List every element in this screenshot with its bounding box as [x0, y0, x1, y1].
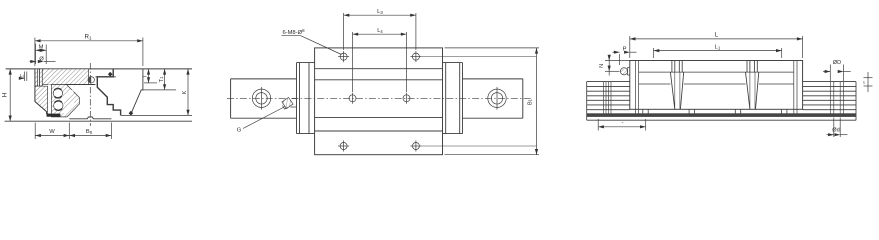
- svg-text:L1: L1: [715, 44, 721, 50]
- svg-text:R1: R1: [84, 34, 91, 41]
- svg-text:L1: L1: [20, 73, 25, 79]
- svg-text:T: T: [143, 74, 149, 78]
- flange strip hatched bars with bolt hole gap: [35, 69, 38, 86]
- ball 1: [53, 88, 64, 99]
- rail bottom band full width: [587, 113, 856, 117]
- svg-text:B1: B1: [528, 98, 534, 105]
- grease nipple side: [620, 68, 629, 75]
- top surface line: [6, 68, 192, 70]
- left end cap: [297, 63, 315, 134]
- svg-text:t: t: [863, 80, 865, 85]
- dimension M: [36, 44, 47, 65]
- rail stripes left segment: [587, 82, 630, 121]
- svg-text:N: N: [599, 64, 605, 68]
- svg-text:-: -: [622, 119, 624, 125]
- rail bolt hidden lines (right segment): [830, 82, 843, 114]
- bolt silhouette 1: [670, 61, 683, 110]
- rail bottom seat line with center notch: [69, 117, 111, 119]
- rail profile right outline (end view): [97, 69, 120, 116]
- dim L: [630, 32, 803, 58]
- dimension R1: [35, 34, 143, 66]
- dim L1: [654, 44, 782, 58]
- svg-text:Ø: Ø: [39, 56, 44, 62]
- ball surround hatched wedge: [51, 85, 79, 117]
- T1 reference line: [141, 89, 176, 91]
- svg-text:T1: T1: [159, 76, 165, 82]
- svg-text:G: G: [237, 128, 242, 134]
- bottom dims W and B: [35, 123, 111, 140]
- block right face outline: [132, 69, 143, 113]
- block body: [315, 48, 443, 155]
- small lip dimension top-left: [20, 72, 27, 82]
- dim OD: [823, 60, 851, 81]
- label 6-M8 with leader: [282, 28, 342, 54]
- T reference line: [144, 82, 157, 84]
- dimension O (diameter): [30, 56, 56, 62]
- svg-text:L3: L3: [377, 9, 383, 15]
- svg-text:W: W: [49, 129, 55, 135]
- svg-text:B0: B0: [86, 129, 93, 135]
- dimension T1: [159, 69, 165, 90]
- ball 2: [53, 100, 64, 111]
- bottom seal black: [47, 114, 61, 117]
- grease nipple plan: [282, 97, 297, 109]
- left body hatched: [35, 86, 48, 113]
- right end cap: [443, 63, 463, 134]
- svg-text:L4: L4: [377, 28, 383, 34]
- bottom-left dim: [598, 119, 646, 131]
- diamond marker bottom right: [129, 111, 134, 116]
- middle row holes: [349, 93, 410, 104]
- dim N: [599, 57, 631, 76]
- bottom seal tabs: [643, 109, 787, 113]
- svg-text:P: P: [623, 46, 627, 52]
- svg-text:M: M: [39, 45, 44, 51]
- svg-text:L: L: [715, 32, 719, 39]
- centerline vertical: [89, 63, 91, 126]
- dimension H: [1, 69, 10, 121]
- block inner horizontal lines: [315, 68, 443, 70]
- block side view: [630, 61, 803, 114]
- rail left segment: [231, 79, 297, 118]
- dimension T: [143, 69, 149, 83]
- dim L3 (top outer): [344, 9, 416, 50]
- small ball marker at centerline: [88, 77, 94, 83]
- top body hatched band: [42, 69, 88, 85]
- top row holes: [338, 51, 536, 62]
- rail bolt hidden lines (left segment): [603, 82, 611, 114]
- block left outline: [35, 69, 47, 114]
- svg-text:H: H: [1, 93, 8, 97]
- bottom row holes: [338, 141, 536, 152]
- dim P: [613, 46, 637, 65]
- svg-text:6-M8-Ø8: 6-M8-Ø8: [282, 28, 305, 36]
- dimension K: [182, 69, 188, 116]
- rail centerline: [227, 97, 532, 99]
- diamond marker top: [108, 72, 113, 77]
- rail stripes right segment: [803, 82, 856, 121]
- dim Od: [827, 118, 848, 138]
- rail top line: [65, 84, 96, 86]
- dim B1: [445, 48, 540, 155]
- svg-text:K: K: [182, 90, 188, 94]
- block bottom edge right part: [121, 114, 192, 116]
- svg-text:ØD: ØD: [833, 60, 841, 66]
- bolt silhouette 2: [746, 61, 759, 110]
- label G with leader: [237, 107, 285, 134]
- white raceway channels: [62, 91, 73, 102]
- rail right segment: [463, 79, 523, 118]
- small t dim far right: [863, 72, 872, 92]
- base line: [5, 120, 192, 122]
- dim L4 (top inner): [353, 28, 407, 92]
- rail bolt hole right: [488, 89, 506, 107]
- step line under diamond: [95, 76, 115, 78]
- rail bolt hole left: [252, 89, 270, 107]
- svg-text:Ød: Ød: [832, 127, 839, 133]
